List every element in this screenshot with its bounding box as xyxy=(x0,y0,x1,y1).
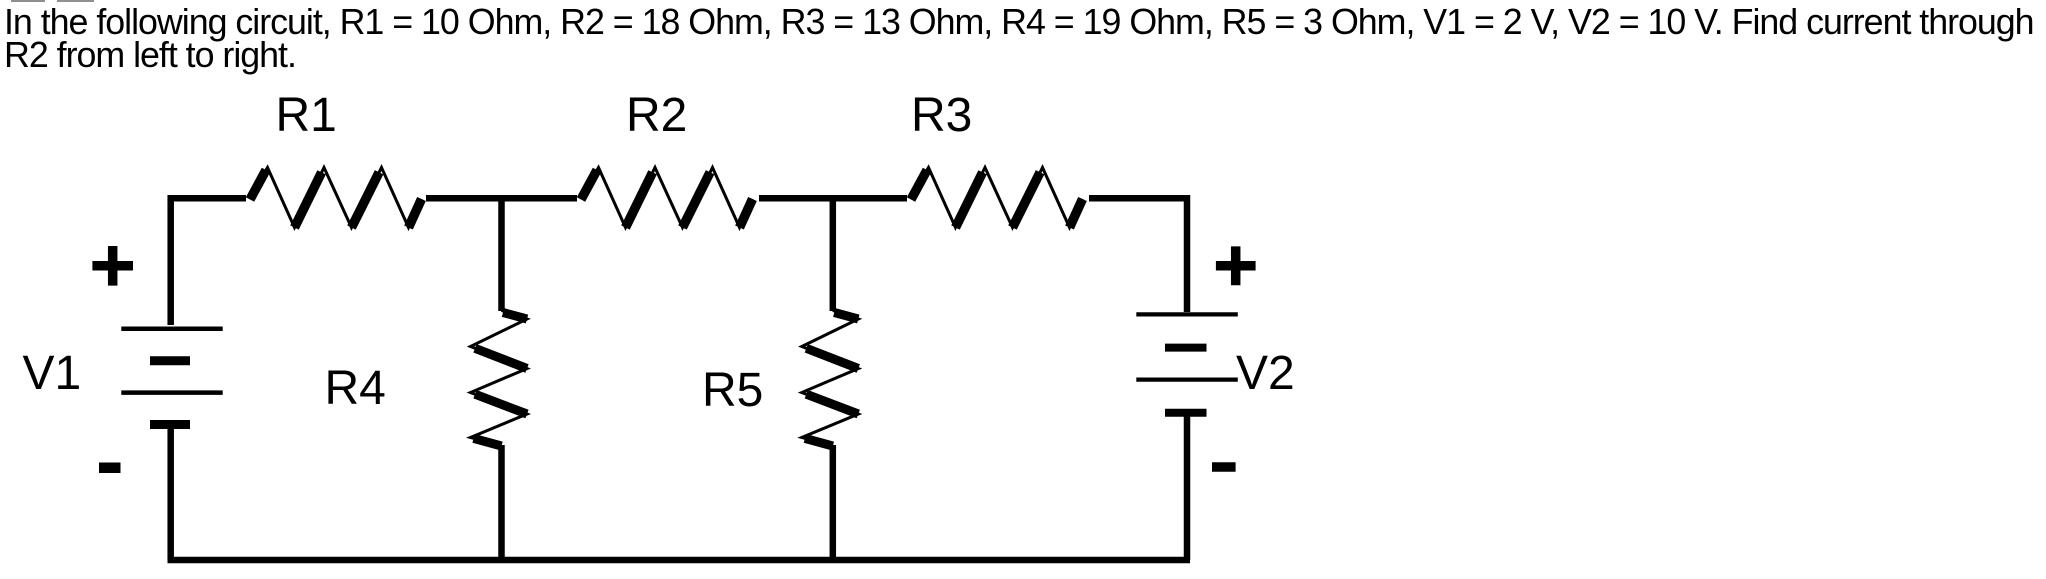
svg-text:R1: R1 xyxy=(276,89,337,142)
toolbar button remnant 1 xyxy=(11,0,46,2)
wire node B down to R5 xyxy=(830,195,837,311)
wire node A down to R4 xyxy=(498,195,505,311)
svg-text:R5: R5 xyxy=(702,364,763,417)
plus sign V2 xyxy=(1216,246,1256,285)
resistor R2 xyxy=(580,168,753,228)
wire R4 bottom to rail xyxy=(498,445,505,560)
wire top-left corner (V1 top to R1) xyxy=(171,198,246,325)
wire V2 bottom to rail xyxy=(1184,414,1191,560)
battery V2 plate 1 (long) xyxy=(1136,312,1238,316)
svg-text:R4: R4 xyxy=(325,362,386,415)
battery V1 plate 3 (long) xyxy=(121,390,222,395)
resistor R1 xyxy=(249,168,422,228)
battery V2 plate 4 (short thick) xyxy=(1165,409,1207,417)
battery V1 plate 4 (short thick) xyxy=(150,420,190,429)
battery V2 plate 2 (short thick) xyxy=(1165,344,1207,352)
wire R5 bottom to rail xyxy=(830,445,837,560)
resistor R3 xyxy=(910,168,1083,228)
plus sign V1 xyxy=(92,246,133,286)
minus sign V1 xyxy=(99,463,121,474)
resistor R4 xyxy=(471,311,528,447)
resistor R5 xyxy=(802,311,859,447)
wire R1 to R2 through node A xyxy=(426,195,577,202)
battery V1 plate 1 (long) xyxy=(121,327,222,332)
svg-text:R2: R2 xyxy=(626,89,687,142)
wire R3 to top-right corner xyxy=(1089,198,1187,312)
problem statement text xyxy=(4,6,2034,72)
wire bottom rail xyxy=(168,557,1191,564)
svg-text:V2: V2 xyxy=(1236,347,1295,400)
battery V1 plate 2 (short thick) xyxy=(150,356,190,365)
svg-text:V1: V1 xyxy=(23,347,82,400)
minus sign V2 xyxy=(1212,462,1236,472)
battery V2 plate 3 (long) xyxy=(1136,378,1238,382)
svg-text:R3: R3 xyxy=(911,89,972,142)
toolbar button remnant 2 xyxy=(57,0,94,2)
wire R2 to R3 through node B xyxy=(759,195,907,202)
wire V1 bottom to rail xyxy=(167,427,174,560)
